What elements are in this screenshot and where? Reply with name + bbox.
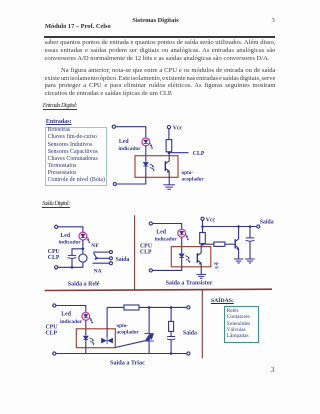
header module line bbox=[45, 23, 111, 30]
ground (Q3 emitter) bbox=[234, 259, 243, 263]
ground (circuit 1) bbox=[163, 185, 175, 190]
saidas list box bbox=[224, 306, 259, 343]
terminal Vcc (circuit 1) bbox=[167, 126, 170, 129]
relay coil K1 bbox=[79, 254, 87, 262]
wire rail to capacitor C2 bbox=[249, 227, 251, 238]
node R2 bottom / base node bbox=[201, 243, 204, 246]
svg-text:acoplador: acoplador bbox=[182, 177, 205, 183]
svg-text:CLP: CLP bbox=[48, 255, 60, 261]
entradas list label bbox=[46, 119, 72, 125]
opto LED glyph (U2) bbox=[179, 254, 184, 257]
opto LED glyph (U3) bbox=[83, 336, 88, 339]
terminal input bottom (circuit 4) bbox=[53, 352, 56, 355]
label CPU CLP (circuit 2) bbox=[48, 249, 61, 261]
wire R5 to capacitor C3 bbox=[170, 331, 172, 336]
wire Q3 emitter to ground bbox=[238, 249, 240, 260]
wire C2 to ground bbox=[249, 241, 251, 259]
header page number bbox=[272, 17, 275, 24]
wire LED cathode into opto box (circuit 4) bbox=[85, 320, 87, 335]
transistor Q3 bbox=[235, 227, 239, 251]
terminal Saida top (circuit 4) bbox=[187, 306, 190, 309]
section divider vertical (left of SAIDAS list) bbox=[201, 290, 203, 359]
wire Q2 collector up to base node bbox=[200, 244, 202, 246]
wire Q1 collector to CLP node bbox=[168, 153, 170, 156]
section divider vertical (between rele and transistor) bbox=[134, 215, 136, 289]
terminal Vcc (circuit 3) bbox=[201, 217, 204, 220]
wire top-left to LED anode bbox=[115, 127, 145, 138]
terminal input bottom (circuit 3) bbox=[149, 269, 152, 272]
node CLP junction (circuit 1) bbox=[168, 151, 171, 154]
svg-text:Saída a Relé: Saída a Relé bbox=[68, 282, 100, 288]
label Led indicador (circuit 2) bbox=[59, 233, 82, 246]
label Led indicador (circuit 1) bbox=[118, 139, 141, 152]
svg-text:acoplador: acoplador bbox=[117, 329, 140, 335]
capacitor C2 bbox=[246, 238, 255, 241]
wire top-left to LED (circuit 2) bbox=[58, 227, 83, 232]
resistor R5 (snubber) bbox=[169, 321, 174, 331]
LED emission arrows (circuit 1) bbox=[149, 143, 153, 149]
opto LED glyph (U1) bbox=[143, 163, 148, 166]
svg-text:opto-: opto- bbox=[182, 170, 194, 176]
capacitor C1 (snubber) bbox=[68, 255, 77, 258]
wire capacitor to bottom rail bbox=[71, 259, 73, 268]
relay contact NA bbox=[93, 262, 110, 264]
LED indicator diode glyph (circuit 2) bbox=[81, 234, 85, 237]
paragraph 1 bbox=[45, 39, 276, 47]
phototransistor Q1 bbox=[165, 156, 169, 173]
header title bbox=[132, 17, 178, 24]
svg-text:CPU: CPU bbox=[46, 324, 59, 330]
wire opto LED cathode to bottom rail (circuit 3) bbox=[152, 258, 181, 271]
wire photo-triac output up to top rail bbox=[106, 307, 108, 337]
wire Vcc down to R2 bbox=[202, 220, 204, 232]
svg-text:CLP: CLP bbox=[140, 250, 152, 256]
terminal input top (circuit 2) bbox=[55, 225, 58, 228]
wire triac to bottom rail bbox=[148, 341, 150, 354]
terminal common contact bbox=[109, 257, 112, 260]
opto-coupler box U2 bbox=[171, 247, 211, 267]
capacitor C3 (snubber) bbox=[167, 337, 175, 340]
terminal input bottom (circuit 1) bbox=[113, 182, 116, 185]
svg-text:ac: ac bbox=[215, 264, 219, 269]
opto LED arrows (U2) bbox=[185, 256, 190, 263]
LED indicator diode glyph (circuit 3) bbox=[180, 231, 184, 234]
wire opto LED cathode to bottom rail bbox=[116, 166, 145, 184]
saidas list label bbox=[211, 298, 234, 304]
terminal NF contact bbox=[109, 251, 112, 254]
node capacitor top on rail bbox=[249, 225, 252, 228]
terminal Saida (circuit 3) bbox=[257, 225, 260, 228]
svg-text:Saída: Saída bbox=[183, 330, 197, 336]
section divider horizontal (under rele/transistor) bbox=[45, 289, 272, 290]
svg-text:Vcc: Vcc bbox=[173, 125, 183, 131]
node coil top (circuit 2) bbox=[82, 248, 85, 251]
opto LED arrows (U3) bbox=[89, 338, 94, 345]
svg-text:Led: Led bbox=[61, 312, 71, 318]
node arm pivot bbox=[96, 257, 98, 259]
wire LED cathode to coil node (circuit 2) bbox=[82, 240, 84, 249]
wire R3 to Q3 base bbox=[225, 243, 235, 245]
LED indicator ring (circuit 2) bbox=[79, 232, 87, 240]
LED emission arrows (circuit 3) bbox=[185, 234, 189, 240]
terminal input top (circuit 4) bbox=[53, 304, 56, 307]
label opto-acoplador (U3) bbox=[117, 323, 140, 335]
wire LED cathode into opto box bbox=[145, 146, 147, 162]
svg-text:Saída: Saída bbox=[260, 220, 274, 226]
LED indicator ring (circuit 4) bbox=[82, 312, 90, 320]
svg-text:Led: Led bbox=[119, 139, 129, 145]
node capacitor bottom junction bbox=[71, 266, 74, 269]
photo-triac glyph (U3) bbox=[101, 337, 113, 345]
wire bottom rail (circuit 4) bbox=[86, 353, 187, 355]
terminal input top (circuit 1) bbox=[112, 125, 115, 128]
resistor R3 (base) bbox=[214, 242, 225, 246]
svg-text:NF: NF bbox=[91, 243, 99, 249]
header rule bbox=[44, 36, 275, 38]
wire coil top lead bbox=[82, 249, 84, 254]
relay contact NF bbox=[94, 251, 110, 253]
wire top rail (circuit 4) bbox=[107, 306, 187, 308]
label CPU CLP (circuit 4) bbox=[46, 324, 59, 336]
LED emission arrows (circuit 4) bbox=[89, 317, 93, 323]
LED indicator ring (circuit 1) bbox=[142, 138, 150, 146]
label opto abbreviation (U2) bbox=[214, 261, 220, 270]
footer page number bbox=[271, 367, 274, 374]
wire triac gate to opto box bbox=[115, 341, 144, 348]
svg-text:NA: NA bbox=[94, 269, 102, 275]
wire LED cathode into opto box (circuit 3) bbox=[181, 237, 183, 253]
wire opto LED cathode to bottom rail (circuit 4) bbox=[56, 340, 86, 354]
wire top-left to LED (circuit 3) bbox=[152, 224, 181, 230]
wire snubber branch from rail bbox=[170, 307, 172, 321]
wire Vcc to resistor R1 bbox=[168, 129, 170, 140]
LED emission arrows (circuit 2) bbox=[86, 237, 90, 243]
svg-text:Saída a Triac: Saída a Triac bbox=[110, 359, 145, 366]
wire R1 to CLP node bbox=[168, 151, 170, 154]
phototransistor Q2 bbox=[197, 247, 201, 265]
svg-text:CLP: CLP bbox=[193, 151, 205, 157]
relay common arm bbox=[93, 253, 96, 259]
terminal NA contact bbox=[109, 262, 112, 265]
heading Entrada Digital bbox=[43, 102, 77, 110]
node Q3 collector on rail bbox=[237, 225, 240, 228]
LED indicator diode glyph (circuit 4) bbox=[84, 315, 88, 318]
LED indicator diode glyph bbox=[144, 140, 148, 143]
LED indicator ring (circuit 3) bbox=[178, 229, 186, 237]
ground (opto emitter, circuit 3) bbox=[196, 274, 206, 278]
terminal input top (circuit 3) bbox=[149, 222, 152, 225]
paragraph 2 bbox=[61, 67, 276, 75]
relay contact common bbox=[97, 257, 110, 259]
wire Q1 emitter to ground bbox=[168, 171, 170, 184]
wire top-left to LED (circuit 4) bbox=[56, 306, 86, 313]
wire base node to R3 bbox=[203, 243, 214, 245]
terminal Saida bottom (circuit 4) bbox=[187, 352, 190, 355]
svg-text:Vcc: Vcc bbox=[206, 217, 216, 223]
label opto-acoplador (circuit 1) bbox=[182, 170, 205, 182]
svg-text:Led: Led bbox=[60, 233, 70, 239]
terminal input bottom (circuit 2) bbox=[55, 266, 58, 269]
label Led indicador (circuit 3) bbox=[155, 230, 178, 243]
wire rail down to triac Q4 bbox=[148, 307, 150, 333]
resistor R2 (pull-up) bbox=[200, 233, 206, 244]
wire top rail to Saida (circuit 3) bbox=[203, 226, 257, 228]
opto-coupler box U3 bbox=[76, 329, 115, 348]
label CPU CLP (circuit 3) bbox=[140, 244, 153, 256]
node Vcc rail junction bbox=[201, 225, 204, 228]
svg-text:indicador: indicador bbox=[155, 236, 178, 242]
triac Q4 bbox=[144, 334, 153, 341]
svg-text:indicador: indicador bbox=[118, 146, 141, 152]
svg-text:CLP: CLP bbox=[46, 331, 58, 337]
wire to snubber capacitor branch bbox=[72, 249, 83, 255]
svg-text:indicador: indicador bbox=[59, 239, 82, 245]
svg-text:indicador: indicador bbox=[60, 319, 83, 325]
SVG circuits go here bbox=[112, 125, 205, 189]
label Led indicador (circuit 4) bbox=[60, 312, 83, 326]
svg-text:Saída: Saída bbox=[116, 257, 130, 263]
wire coil bottom lead to bottom rail bbox=[58, 262, 83, 267]
node triac branch on rail bbox=[148, 306, 151, 309]
node snubber branch bottom bbox=[170, 352, 173, 355]
heading Saida Digital bbox=[42, 200, 70, 208]
ground (C2) bbox=[245, 259, 254, 263]
node snubber branch top bbox=[170, 306, 173, 309]
svg-text:opto-: opto- bbox=[117, 323, 129, 329]
wire Q2 emitter to ground bbox=[200, 263, 202, 274]
svg-text:Saída a Transistor: Saída a Transistor bbox=[166, 280, 213, 286]
opto LED arrows (U1) bbox=[150, 164, 155, 171]
resistor R1 bbox=[166, 140, 172, 152]
entradas list box bbox=[45, 127, 107, 187]
wire CLP bbox=[169, 152, 189, 154]
svg-text:Led: Led bbox=[156, 230, 166, 236]
resistor R4 (on top rail) bbox=[124, 305, 139, 310]
wire C3 to bottom rail bbox=[170, 340, 172, 354]
opto-coupler box U1 bbox=[135, 156, 178, 178]
